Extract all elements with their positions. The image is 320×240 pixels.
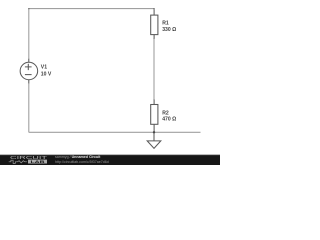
svg-text:10 V: 10 V xyxy=(41,72,52,78)
wire corner top-right xyxy=(153,8,154,10)
resistor R1 xyxy=(151,9,158,39)
svg-text:330 Ω: 330 Ω xyxy=(162,27,176,33)
svg-text:470 Ω: 470 Ω xyxy=(162,117,176,123)
svg-text:R1: R1 xyxy=(162,21,169,27)
wire bottom horizontal xyxy=(29,131,201,133)
resistor R2 xyxy=(151,100,158,133)
svg-text:R2: R2 xyxy=(162,111,169,117)
wire right middle vertical xyxy=(153,38,155,100)
wire left vertical (top) xyxy=(28,9,30,59)
CircuitLab logo xyxy=(9,155,47,164)
wire corner top-left xyxy=(28,8,29,10)
ground xyxy=(147,132,161,148)
svg-text:V1: V1 xyxy=(41,65,47,71)
svg-text:LAB: LAB xyxy=(31,159,45,164)
node junction dot xyxy=(153,131,155,133)
svg-text:sammyg / Unnamed Circuit: sammyg / Unnamed Circuit xyxy=(55,155,101,159)
wire top horizontal xyxy=(29,8,154,10)
wire left vertical (bottom) xyxy=(28,83,30,132)
svg-text:http://circuitlab.com/c/5f37ae: http://circuitlab.com/c/5f37ae7d6d xyxy=(55,160,109,164)
footer bar xyxy=(0,155,220,165)
voltage source V1 xyxy=(20,59,38,84)
